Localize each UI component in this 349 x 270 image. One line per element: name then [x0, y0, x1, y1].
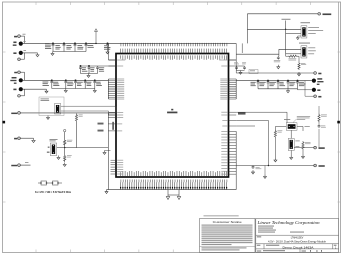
wire left SW gnd stub — [105, 150, 111, 152]
connector J7 GND label — [14, 138, 17, 140]
capacitor C3 value label — [66, 45, 72, 49]
jumper JP1 CLK SEL label — [301, 21, 311, 24]
ground JP3 box — [46, 116, 49, 120]
date value — [263, 250, 285, 251]
E5 rating label — [317, 81, 323, 82]
ground bottom bus left — [105, 190, 108, 194]
U1 right pin stubs COMP2 — [229, 65, 237, 67]
J12 EXTVCC label — [319, 165, 325, 167]
wire JP1 pin2 — [286, 33, 301, 35]
wire divider top — [64, 132, 66, 139]
capacitor C18 value label — [269, 82, 276, 86]
capacitor C4 input bank — [85, 43, 88, 52]
capacitor C16 label — [242, 62, 246, 64]
capacitor C5 value label — [104, 45, 110, 49]
U1 right pin name labels COMP2 — [221, 65, 227, 67]
title cell label — [257, 236, 261, 237]
U1 left pin name labels VOUT2 bus — [117, 79, 124, 99]
connector E5 VOUT1 turret — [312, 79, 316, 83]
jumper JP1 clock select — [301, 26, 307, 38]
E5 VOUT1 label — [317, 78, 322, 79]
JP2 option a label — [308, 46, 315, 49]
jumper JP5 run3 on-off — [288, 138, 294, 150]
input bank note label — [88, 42, 95, 45]
resistor R3 value label — [67, 155, 72, 157]
U1 bottom pin junction dots — [120, 187, 227, 189]
wire right bottom bus — [235, 131, 237, 189]
wire JP1 pin1 — [247, 28, 301, 30]
wire JP2 pin1 — [279, 48, 301, 50]
capacitor C5 VIN bypass — [106, 43, 109, 50]
jumper JP3 soft-start — [55, 104, 61, 115]
node flag VOUT2 sense — [63, 129, 65, 131]
customer notice footer text — [202, 247, 247, 250]
VOUT2 max label — [14, 83, 17, 84]
J2 refdes label — [23, 33, 26, 36]
wire R6 to JP2 bottom — [286, 54, 299, 62]
wire VIN rail — [23, 42, 236, 44]
ground left SW group — [103, 151, 106, 155]
U1 left pin name labels RUN1 — [117, 123, 122, 125]
wire VOUT2 rail to U1 pins vertical bus — [107, 79, 109, 99]
wire GND stub E4 — [23, 88, 47, 90]
ground divider — [63, 163, 66, 167]
document number cell label — [266, 245, 279, 246]
customer notice body text — [202, 225, 253, 246]
connector J11 TRACK3 turret — [314, 146, 317, 149]
JP1 BURST MODE EXT CLK label — [308, 29, 323, 32]
E1 refdes label — [24, 40, 26, 43]
resistor R7 value label — [301, 63, 306, 65]
wire J3 to GND node — [20, 53, 24, 59]
capacitor C22 value label — [321, 126, 326, 128]
U1 right pin stubs TRACK2 — [229, 112, 237, 115]
resistor R11 value label — [321, 115, 327, 117]
connector E3 VOUT2 turret — [19, 78, 23, 82]
jumper JP4 label — [284, 118, 290, 121]
wire VOUT1 bank gnd rail — [258, 88, 298, 90]
junction dot JP1 feed — [285, 29, 286, 30]
title block divider above size row — [256, 243, 339, 245]
ground R9 — [274, 158, 277, 162]
date cell label — [257, 250, 261, 251]
sheet number — [309, 250, 312, 251]
capacitor C2 input bank — [63, 43, 66, 52]
junction dot RUN3 extvcc — [268, 165, 269, 166]
capacitor C6 COMP1 cluster — [79, 65, 82, 73]
node RUN1 net label — [98, 123, 104, 125]
U1 top pin stubs — [121, 49, 227, 54]
wire COMP2 right — [236, 65, 244, 67]
resistor R6 freq set — [288, 55, 298, 57]
wire RUN3 pin right long — [236, 120, 268, 165]
resistor R1 TRACK1 divider — [75, 114, 77, 123]
capacitor C2 value label — [55, 45, 60, 49]
ground VOUT2 bank b — [93, 89, 96, 93]
resistor R11 track3 — [318, 114, 320, 123]
JP4 COM label — [305, 125, 310, 128]
ground R10 — [301, 155, 304, 159]
wire TRACK1 wire — [20, 112, 116, 114]
size cell label — [257, 245, 261, 246]
capacitor C15 COMP2 cluster — [235, 66, 238, 70]
capacitor C10 value label — [67, 82, 73, 86]
ground E4 — [45, 89, 48, 93]
title block size divider — [263, 244, 265, 249]
resistor R9 value label — [277, 130, 282, 132]
capacitor C21 value label — [299, 82, 306, 86]
U1 bottom pin name labels inside — [121, 171, 227, 176]
resistor R4 0-ohm option — [40, 181, 47, 185]
capacitor C20 value label — [274, 60, 281, 62]
title block sheet divider — [299, 249, 301, 252]
sheet of label — [316, 250, 318, 251]
node VOUT2 net label — [112, 122, 114, 130]
resistor R1 value label — [79, 115, 83, 117]
U1 top pin number labels — [121, 43, 227, 46]
ground J7 — [32, 138, 35, 142]
capacitor C21 VOUT1 bank — [296, 80, 299, 89]
capacitor C17 value label — [259, 82, 265, 86]
wire input cap bank ground rail — [53, 51, 86, 53]
wire COMP1 cluster ground rail — [81, 73, 98, 75]
rev cell label — [334, 245, 337, 246]
wire INTVCC vertical — [285, 21, 287, 54]
resistor R2 divider top — [64, 139, 66, 146]
svg-text:Customer Notice: Customer Notice — [213, 220, 242, 224]
wire R9 bottom to gnd — [274, 138, 276, 158]
ground E2 — [36, 53, 39, 57]
capacitor C9 value label — [43, 82, 49, 86]
connector E1 VIN label — [13, 42, 16, 44]
sheet cell label — [302, 250, 306, 251]
U1 left pin stubs TRACK1 SS1 — [109, 112, 117, 117]
ground VOUT1 bank — [286, 89, 289, 93]
JP1 LOW label — [308, 32, 316, 35]
capacitor C20 value label — [289, 82, 295, 86]
connector J8 TRACK2 turret — [18, 164, 21, 167]
ground C5 — [106, 50, 109, 54]
svg-text:4.5V - 26.5V, Dual 4A Step-Dow: 4.5V - 26.5V, Dual 4A Step-Down Energy M… — [268, 240, 327, 243]
title block outer box — [256, 219, 339, 253]
E2 refdes label — [24, 49, 27, 52]
capacitor C20 VOUT1 bank — [287, 80, 290, 89]
wire U1 top right verticals — [236, 43, 242, 60]
jumper JP4 callout leader — [293, 119, 297, 123]
capacitor C6 label — [82, 67, 88, 71]
connector E4 GND turret — [19, 87, 23, 91]
wire gnd mid right stub — [264, 166, 266, 175]
jumper JP2 freq adjust — [301, 46, 307, 58]
junction dot divider mid — [64, 147, 65, 148]
capacitor C13 value label — [96, 82, 102, 86]
capacitor C7 label — [90, 67, 94, 71]
title block divider above date row — [256, 248, 339, 250]
connector J6 TRACK1 label — [11, 113, 17, 114]
ground COMP1 cluster — [87, 74, 90, 78]
resistor R2 value label — [67, 140, 72, 142]
capacitor C11 VOUT2 bank — [74, 80, 77, 89]
capacitor C19 VOUT1 bank — [277, 80, 280, 89]
U1 right pin name labels TRACK2 — [221, 112, 227, 115]
capacitor C9 value label — [53, 82, 59, 86]
ground input cap bank — [51, 52, 54, 56]
resistor R10 40.2k — [302, 141, 304, 150]
wire R11 top — [318, 106, 320, 114]
wire JP8 to divider — [57, 147, 65, 149]
wire VOUT1 pins vertical bus — [235, 79, 237, 99]
JP4 callout TRACK VOUT3 line1 — [297, 116, 310, 120]
connector J1 CLK SYNC turret — [318, 13, 321, 16]
wire VOUT2 cap bank ground rail — [52, 88, 95, 90]
node INTVCC label — [282, 18, 291, 21]
confidential note — [204, 214, 239, 217]
wire VOUT1 rail right — [236, 80, 312, 82]
wire E6 gnd link — [298, 89, 312, 90]
company address lines — [258, 226, 304, 233]
ground COMP2 cluster — [239, 71, 242, 75]
U1 bottom pin number labels — [121, 180, 227, 183]
VIN voltage label — [13, 44, 17, 45]
connector J10 VOS sense turret — [314, 95, 317, 98]
capacitor C10 VOUT2 bank — [64, 80, 67, 89]
TRACK2 wire label — [25, 161, 28, 164]
ground C20 — [277, 65, 280, 69]
U1 left pin name labels COMP1 — [117, 65, 123, 67]
U1 right pin stubs VIN2 — [229, 59, 237, 61]
resistor R3 divider bottom — [64, 155, 66, 163]
capacitor C7 COMP1 cluster — [88, 65, 91, 73]
U1 right pin name labels VOUT1 bus — [220, 79, 227, 99]
U1 top pin name labels inside — [121, 55, 227, 59]
JP2 option c label — [308, 52, 314, 55]
wire VOS sense — [305, 81, 314, 97]
ground JP8 — [57, 156, 60, 160]
jumper JP8 RUN2 on-off — [50, 143, 57, 156]
resistor R9 track divider top — [274, 130, 276, 139]
JP5 OFF label — [295, 145, 299, 148]
wire JP3 to SS pin b — [61, 111, 116, 115]
capacitor C17 VOUT1 bank — [257, 80, 260, 89]
jumper JP2 FREQ ADJ label — [299, 42, 310, 45]
J10 VOS label — [318, 96, 321, 98]
ground JP5 — [290, 156, 293, 160]
wire JP3 to SS pin a — [61, 106, 116, 112]
node PGOOD1 net label — [98, 130, 104, 132]
connector J2 VIN sense turret — [18, 35, 21, 38]
wire JP2 pin2 from INTVCC — [286, 53, 301, 55]
svg-text:Linear Technology Corporation: Linear Technology Corporation — [256, 220, 319, 225]
wire CLK SYNC drop — [246, 14, 248, 44]
U1 left pin name labels PGOOD1 — [117, 130, 122, 132]
sheet total — [320, 250, 323, 251]
connector E4 GND label — [13, 89, 16, 91]
JP8 OFF label — [47, 152, 50, 153]
capacitor C1 value label — [45, 43, 51, 49]
capacitor C1 input bank — [52, 43, 55, 52]
wire J5 to GND node — [20, 89, 24, 96]
wire VIN sense wire right — [236, 72, 314, 74]
jumper JP8 RUN label — [50, 139, 58, 141]
border center marker right — [337, 121, 340, 124]
wire GND bottom bus — [107, 189, 237, 191]
resistor R8 label — [250, 69, 255, 72]
E5 max label — [317, 84, 320, 85]
U1 left pin stubs COMP1 — [109, 65, 117, 67]
title block divider above title row — [256, 234, 339, 236]
wire COMP1 to cap cluster — [81, 65, 117, 67]
resistor R7 freq set lower — [298, 62, 300, 70]
power flag VIN arrow — [95, 29, 98, 44]
U1 refdes label — [171, 109, 173, 111]
connector J9 VIN sense right turret — [314, 72, 317, 75]
U1 left pin stubs PGOOD1 — [109, 130, 117, 132]
wire J7 gnd stub — [20, 137, 33, 139]
U1 left pin name labels SW group — [117, 160, 123, 174]
ground pair below U1 — [166, 190, 180, 200]
U1 right pin stubs SS3 — [229, 125, 237, 127]
connector J3 GND sense turret — [18, 58, 21, 61]
connector J4 sense label — [14, 72, 17, 73]
capacitor C13 VOUT2 bank — [93, 80, 96, 89]
wire JP1 gnd stub — [298, 35, 301, 37]
U1 right pin name labels SS3 — [222, 125, 227, 127]
U1 left pin stubs SW group — [111, 160, 117, 174]
border center marker left — [3, 121, 6, 124]
wire mid vertical x108 — [107, 113, 109, 190]
connector E2 GND turret — [19, 51, 23, 55]
capacitor C8 label — [99, 67, 104, 71]
capacitor C23 value label — [256, 167, 262, 169]
wire TRACK1 drop to divider — [65, 147, 77, 149]
U1 right pin name labels VOUT3 SW group — [221, 131, 227, 174]
capacitor C15 label — [234, 62, 239, 64]
wire GND stub E2 — [23, 52, 38, 54]
title block rev divider — [332, 244, 334, 249]
wire VIN pin right jog — [229, 60, 237, 73]
wire EXTVCC — [236, 165, 314, 167]
wire VIN pin wire left — [109, 59, 117, 61]
wire R9 top — [274, 127, 276, 130]
connector J5 GND sense turret — [18, 95, 21, 98]
connector J2 VIN sense label — [14, 36, 17, 38]
wire TRACK2 wire — [20, 164, 30, 166]
capacitor C4 value label — [77, 45, 83, 49]
wire JP4 left pin — [275, 126, 286, 128]
wire SS3 pin right — [236, 125, 255, 127]
customer notice box — [200, 219, 256, 253]
capacitor C3 input bank — [74, 43, 77, 52]
wire JP5 bottom gnd — [290, 150, 292, 155]
resistor R6 value label — [289, 58, 297, 60]
connector J12 EXTVCC turret — [314, 164, 317, 167]
U1 bottom pin stubs — [121, 182, 227, 189]
connector J4 VOUT2 sense turret — [18, 71, 21, 74]
wire TRACK3 link — [294, 147, 314, 149]
junction dot VIN flag — [95, 43, 96, 44]
connector E2 GND label — [13, 52, 16, 54]
U1 left pin stubs VIN1 — [109, 59, 117, 61]
resistor R5 0-ohm option — [52, 181, 59, 185]
U1 right pin name labels RUN3 — [222, 119, 227, 121]
wire freq bus — [236, 49, 279, 56]
resistor R10 value label — [305, 142, 311, 144]
capacitor C12 value label — [87, 82, 92, 86]
node GND net label box right — [238, 112, 246, 115]
U1 value label LTM4615IV — [167, 112, 177, 114]
capacitor C11 value label — [77, 82, 83, 86]
JP3 OPT 3COMM label — [41, 99, 50, 101]
U1 left pin name labels VIN1 — [117, 59, 125, 61]
wire TRACK2 pin right long — [236, 112, 287, 122]
wire J2 to VIN node — [20, 36, 24, 43]
U1 right pin stubs RUN3 — [229, 119, 237, 121]
wire R10 bottom gnd — [302, 150, 304, 155]
ground R7 — [297, 72, 300, 76]
JP5 ON label — [295, 140, 299, 143]
wire R4 R5 option link — [38, 182, 62, 184]
capacitor C16 COMP2 cluster — [243, 66, 246, 70]
wire CLK SYNC wire — [247, 13, 318, 15]
connector E6 GND turret — [312, 88, 316, 92]
capacitor C20 INTVCC — [277, 56, 280, 60]
wire COMP2 gnd rail — [237, 70, 245, 72]
connector J8 TRACK2 label — [11, 165, 17, 166]
wire divider to mid vertical — [77, 147, 109, 149]
junction dot JP4 feed — [286, 122, 288, 124]
component outline box JP3 area — [39, 97, 64, 116]
connector J7 GND turret — [18, 137, 21, 140]
VOUT2 rating label — [10, 80, 16, 81]
ground mid right — [263, 175, 266, 179]
J9 VIN label — [318, 73, 321, 75]
U1 right pin stubs VOUT1 bus — [229, 79, 237, 99]
E6 GND label — [317, 89, 320, 91]
capacitor C18 VOUT1 bank — [267, 80, 270, 89]
capacitor C9 VOUT2 bank — [50, 80, 53, 89]
wire JP5 top — [290, 130, 292, 138]
component R8 outline box — [249, 70, 258, 74]
JP2 option b label — [308, 49, 316, 52]
wire divider mid link — [64, 146, 66, 155]
wire R11 to C22 — [318, 123, 320, 125]
JP1 PULSE SKIP label — [308, 26, 319, 29]
U1 left pin name labels TRACK1 SS1 — [117, 112, 123, 117]
ground JP1 — [296, 36, 299, 40]
wire J4 to VOUT2 node — [20, 72, 24, 80]
ground C23 — [251, 170, 254, 174]
wire VOUT2 rail — [23, 79, 108, 81]
JP8 ON label — [48, 147, 50, 148]
capacitor C4b value label — [88, 45, 94, 48]
wire VIN pin drop — [108, 43, 110, 60]
U1 left pin stubs VOUT2 bus — [109, 79, 117, 99]
CLK SYNC label — [323, 13, 332, 15]
J11 TRACK3 label — [319, 147, 325, 149]
connector J6 TRACK1 turret — [18, 112, 21, 115]
IC U1 LTM4615 module body — [116, 54, 229, 178]
U1 left pin stubs RUN1 — [109, 123, 117, 125]
wire JP4 right pin — [297, 127, 303, 132]
capacitor C8 COMP1 cluster — [96, 66, 99, 74]
capacitor C17 value label — [251, 82, 256, 86]
U1 right pin name labels VIN2 — [219, 59, 227, 61]
ground VOUT2 bank a — [64, 89, 67, 93]
wire C22 to TRACK3 — [318, 129, 320, 148]
sheet border inner frame right line — [338, 2, 340, 253]
wire R1 down to divider node — [76, 122, 78, 148]
svg-text:LTM4615EV: LTM4615EV — [291, 238, 304, 240]
